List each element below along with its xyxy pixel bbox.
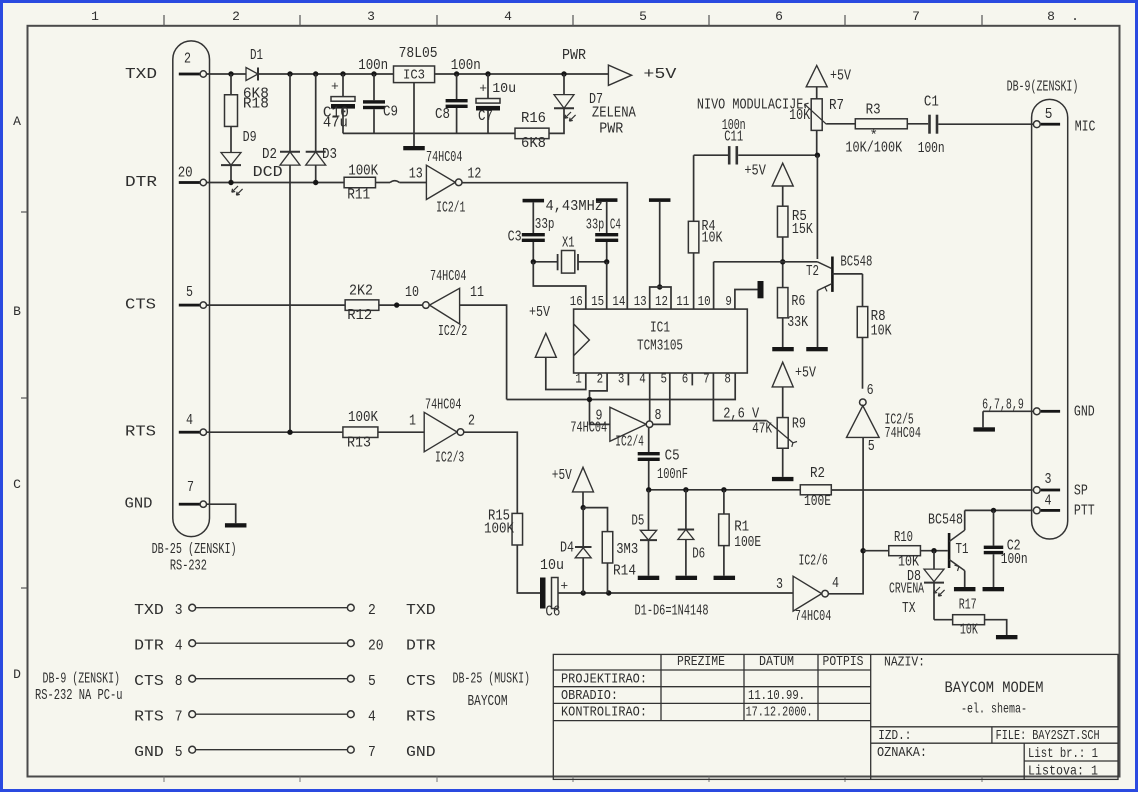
svg-text:20: 20 [178,165,193,182]
label DCD [253,164,283,181]
junction D2 RTS [287,430,292,435]
svg-text:ZELENA: ZELENA [592,105,636,122]
pin 6 stub [691,373,693,385]
label pin 3 IC2/6 [776,576,783,593]
resistor R5 [777,206,812,238]
wire R7 to junction [816,130,818,155]
svg-text:X1: X1 [562,235,575,252]
IC U1 TCM3105 body [574,309,748,373]
label RTS [125,424,156,441]
resistor R8 [857,274,891,389]
trimmer R9 wiper [767,421,797,447]
svg-text:10K: 10K [871,323,892,340]
diode D5 [631,490,657,576]
+5V arrow IC1 [529,304,586,390]
label GND [125,495,153,512]
svg-text:IC2/2: IC2/2 [438,323,467,340]
resistor R12 [345,282,379,324]
svg-text:R2: R2 [810,465,825,482]
junction R10 D8 [931,548,936,553]
label pin 2 IC2/3 [468,412,475,429]
connector J2 DB-9 (ZENSKI) body [1032,99,1068,539]
svg-text:5: 5 [868,438,875,455]
wire GND bus to ground [982,411,984,427]
crystal X1 [533,235,606,273]
svg-text:BAYCOM MODEM: BAYCOM MODEM [945,679,1044,697]
svg-text:+5V: +5V [795,364,816,381]
svg-text:8: 8 [724,372,731,388]
svg-text:C: C [13,477,21,492]
svg-text:DTR: DTR [406,638,436,655]
junction X1 left [531,259,536,264]
T2 emitter arrow [825,285,829,291]
svg-text:+5V: +5V [744,163,766,180]
label 4,43MHz [546,198,604,215]
svg-text:C5: C5 [665,448,680,465]
junction R18 [228,71,233,76]
svg-text:TXD: TXD [125,66,157,83]
svg-text:D: D [13,667,21,682]
junction C9 [371,71,376,76]
capacitor C1 [918,94,945,157]
svg-text:3M3: 3M3 [616,541,638,558]
label TX [902,600,916,617]
svg-text:8: 8 [1047,9,1055,24]
svg-text:+: + [331,79,339,94]
transistor T2 BC548 [806,253,872,347]
grid ticks top [164,15,982,26]
svg-text:4: 4 [639,372,646,388]
wire R5 to R6 [782,237,784,288]
LED D8 [907,551,944,620]
svg-text:A: A [13,114,21,129]
junction +5V D4 [581,505,586,510]
svg-text:4,43MHz: 4,43MHz [546,198,604,215]
svg-text:IC2/6: IC2/6 [799,553,828,570]
T1 emitter arrow [955,565,959,571]
svg-text:33p: 33p [535,216,555,233]
svg-text:R17: R17 [959,597,977,614]
svg-text:2: 2 [468,412,475,429]
resistor R13 [343,409,378,451]
junction D6 [683,487,688,492]
label DB-9 (ZENSKI) cable [43,671,121,688]
label pin 1 IC2/3 [409,412,416,429]
svg-text:6: 6 [682,372,689,388]
label DB-9(ZENSKI) [1007,79,1079,96]
junction long net IC2/4 [587,397,592,402]
svg-text:C4: C4 [610,217,621,234]
cable wire CTS [134,673,435,690]
label TXD [125,66,157,83]
svg-text:100n: 100n [1001,551,1028,568]
svg-text:10: 10 [405,284,419,301]
wire bar to pin12 [659,202,661,287]
svg-text:BC548: BC548 [928,512,963,529]
wire GND bus [983,410,1033,412]
+5V arrow R7 [806,66,851,99]
wire R9 down [782,448,784,477]
capacitor C7 [476,74,516,133]
svg-text:R9: R9 [792,416,806,433]
svg-text:33K: 33K [787,314,808,331]
wire SP line [831,489,1032,491]
svg-text:GND: GND [125,495,153,512]
svg-text:100n: 100n [358,57,388,74]
junction D2 top [287,71,292,76]
svg-text:8: 8 [655,407,662,424]
svg-text:IC3: IC3 [403,68,425,84]
svg-text:+5V: +5V [529,304,550,321]
svg-text:SP: SP [1074,482,1088,499]
svg-text:100n: 100n [451,57,481,74]
svg-text:DATUM: DATUM [759,654,794,670]
connector J1 DB-25 (ZENSKI) body [173,41,210,537]
label 100n C9 [358,57,388,74]
svg-text:12: 12 [467,165,481,182]
wire C4 to pin15 [606,262,608,309]
svg-text:74HC04: 74HC04 [885,425,921,442]
pin 5 MIC of J2 [1033,106,1060,128]
capacitor C9 [363,74,398,133]
svg-text:9: 9 [725,294,732,310]
svg-text:CTS: CTS [125,296,156,313]
LED D7 arrows [565,112,576,121]
pin 12-13 stub box [650,287,671,309]
cable wire RTS [134,709,435,726]
pin 7 GND of J1 [179,479,207,508]
wire R17 to ground [985,620,1007,635]
wire long net [507,373,736,400]
svg-text:GND: GND [406,744,436,761]
svg-text:DB-25 (MUSKI): DB-25 (MUSKI) [453,671,531,688]
label OZNAKA [877,745,927,761]
resistor R3 [845,102,907,157]
resistor R17 [934,597,985,639]
svg-text:12: 12 [655,294,668,310]
grid ticks bottom [164,777,982,783]
label 100n C8 [451,57,481,74]
svg-text:T1: T1 [956,541,969,558]
svg-text:47u: 47u [323,115,348,132]
IC1 bottom pin numbers [575,372,731,388]
wire TXD rail [207,73,609,75]
rail bar above C3 [523,199,545,203]
svg-text:D2: D2 [262,146,277,163]
label 2,6 V [723,406,759,423]
svg-text:D3: D3 [322,146,337,163]
junction C5 D5 [646,487,651,492]
wire R16 to D7 [549,108,564,133]
junction D4 col [581,590,586,595]
svg-text:FILE: BAY2SZT.SCH: FILE: BAY2SZT.SCH [996,728,1100,744]
diode D4 [560,508,592,593]
label pin 12 [467,165,481,182]
junction pin12 [657,284,662,289]
+5V arrow R9 [772,362,816,417]
svg-text:R11: R11 [347,187,370,204]
svg-text:CRVENA: CRVENA [889,581,924,598]
svg-text:RTS: RTS [125,424,156,441]
label 33p C4 [586,217,605,234]
svg-text:CTS: CTS [406,673,436,690]
svg-text:D6: D6 [692,546,705,563]
inverter IC2/3 [424,396,464,466]
label pin 6 IC2/5 [867,382,874,399]
trimmer R9 [752,416,806,449]
svg-text:DTR: DTR [134,638,164,655]
svg-text:5: 5 [639,9,647,24]
pin 2 TXD of J1 [179,50,207,77]
svg-text:IZD.:: IZD.: [878,728,911,744]
svg-text:+5V: +5V [643,66,676,83]
label pin 11 [470,284,484,301]
label POTPIS [823,654,864,670]
svg-text:RTS: RTS [134,709,164,726]
wire RX net [649,489,801,491]
resistor R10 [863,529,948,571]
svg-text:100n: 100n [918,140,945,157]
svg-text:R3: R3 [866,102,881,119]
svg-text:RTS: RTS [406,709,436,726]
junction C10 [340,71,345,76]
label pin 10 [405,284,419,301]
label KONTROLIRAO [561,705,647,721]
svg-text:100K: 100K [348,162,378,179]
label CRVENA [889,581,924,598]
svg-text:IC2/3: IC2/3 [435,450,464,467]
svg-text:2,6 V: 2,6 V [723,406,759,423]
rail bar above C4 [596,198,618,202]
wire GND pin to ground [207,504,236,523]
label MIC [1075,118,1096,135]
ground at J2 [973,427,995,431]
label date1 [748,688,805,704]
regulator IC3 78L05 [394,45,438,84]
svg-text:D1-D6=1N4148: D1-D6=1N4148 [635,602,709,619]
wire IC2/1 out to IC1 pin14 [462,183,627,309]
grid ticks left [21,212,28,588]
label NAZIV [884,655,925,671]
diode D6 [678,490,706,576]
svg-text:IC2/4: IC2/4 [615,433,644,450]
label RS-232 [170,558,207,575]
svg-text:3: 3 [776,576,783,593]
ground at T1 [954,587,976,591]
+5V arrow D4 [552,467,594,508]
pin 20 DTR of J1 [178,165,207,186]
svg-text:IC2/1: IC2/1 [436,200,465,217]
LED D9 [221,127,257,183]
wire IC2/2 out [460,305,507,399]
label DB-25 (ZENSKI) [152,541,237,558]
svg-text:+5V: +5V [552,467,572,484]
ground at R6 [772,347,794,351]
capacitor C11 [722,117,818,164]
wire pin2 to IC2/4 in [590,373,610,424]
svg-text:3: 3 [367,9,375,24]
svg-text:C11: C11 [724,129,743,146]
inverter IC2/2 [423,268,468,340]
svg-text:2: 2 [368,602,376,619]
junction PWR [561,71,566,76]
pin 3 SP of J2 [1033,471,1060,493]
svg-text:3: 3 [1045,471,1052,488]
svg-text:KONTROLIRAO:: KONTROLIRAO: [561,705,647,721]
junction X1 right [604,259,609,264]
grid row letters [13,114,21,682]
svg-text:2: 2 [184,50,191,67]
label el shema [961,702,1027,718]
svg-text:13: 13 [634,294,647,310]
inverter IC2/1 [426,149,465,217]
capacitor C3 [508,202,545,261]
svg-text:T2: T2 [806,263,819,280]
svg-text:BC548: BC548 [840,253,872,270]
svg-text:20: 20 [368,638,384,655]
label PWR LED [599,121,623,138]
ground at R9 [772,477,794,481]
svg-text:10u: 10u [540,557,564,574]
svg-text:10K: 10K [702,230,723,247]
svg-text:2K2: 2K2 [349,282,373,299]
resistor R2 [800,465,831,510]
svg-text:100nF: 100nF [657,466,688,483]
svg-text:2: 2 [597,372,604,388]
junction C11 R7 T2 [815,153,820,158]
capacitor C8 [435,74,468,133]
inverter IC2/5 [847,399,921,442]
junction D9 DTR [228,180,233,185]
trimmer R7 wiper [805,103,827,124]
resistor R14 [602,532,638,580]
pin 10 stub [713,262,715,309]
svg-text:PREZIME: PREZIME [677,654,725,670]
cable wire TXD [134,602,435,619]
svg-text:OBRADIO:: OBRADIO: [561,688,618,704]
svg-text:D5: D5 [631,512,644,529]
ground at C2 [983,587,1005,591]
label D1-D6=1N4148 [635,602,709,619]
IC1 top pin numbers [570,294,732,310]
label NIVO MODULACIJE [697,97,803,114]
junction C7 [485,71,490,76]
svg-text:+5V: +5V [830,68,851,85]
wire filter ground rail [343,132,515,134]
diode D2 [262,74,300,432]
svg-text:+: + [479,81,487,96]
wire IC2/6 out [828,437,863,593]
svg-text:100E: 100E [804,493,831,510]
svg-text:74HC04: 74HC04 [795,608,831,625]
label 33p C3 [535,216,555,233]
svg-text:10: 10 [698,294,711,310]
wire R15 to C6 [517,545,540,593]
rail bar above pin12 [649,198,671,202]
LED D7 [554,74,603,108]
resistor R16 [515,110,549,152]
label BAYCOM MODEM [945,679,1044,697]
svg-text:6,7,8,9: 6,7,8,9 [982,396,1024,413]
cable wire GND [134,744,435,761]
title block grid [553,654,1118,779]
svg-text:10K: 10K [789,107,810,124]
svg-text:R12: R12 [347,307,372,324]
svg-text:R14: R14 [613,563,636,580]
svg-text:4: 4 [1045,493,1052,510]
svg-text:Listova: 1: Listova: 1 [1028,764,1098,780]
svg-text:GND: GND [1074,403,1095,420]
ground at R17 [996,635,1018,639]
svg-text:PWR: PWR [562,47,586,64]
capacitor C5 [638,428,688,490]
svg-text:R6: R6 [791,293,805,310]
svg-text:List br.: 1: List br.: 1 [1028,746,1098,762]
cable wire DTR [134,638,435,655]
resistor R6 [777,288,808,347]
svg-text:15K: 15K [792,221,813,238]
resistor R15 [484,508,523,546]
transistor T1 BC548 [928,510,969,587]
label pin 5 IC2/5 [868,438,875,455]
wire RTS net [207,431,425,433]
pin 4 PTT of J2 [1033,493,1060,514]
svg-text:4: 4 [832,575,839,592]
wire pin4 to C5 [649,373,651,421]
LED D9 arrows [232,186,243,195]
svg-text:RS-232 NA PC-u: RS-232 NA PC-u [35,687,123,704]
svg-text:-el. shema-: -el. shema- [961,702,1027,718]
ground at J1 GND [225,523,247,527]
ground at D6 [676,576,698,580]
junction D3 DTR [313,180,318,185]
junction R5 R6 [780,259,785,264]
svg-text:2: 2 [232,9,240,24]
label Listova [1028,764,1098,780]
svg-text:74HC04: 74HC04 [430,268,466,285]
capacitor C6 [540,557,568,620]
pin 4 RTS of J1 [179,412,207,435]
trimmer R7 [789,97,844,131]
wire DTR net [207,181,427,183]
label OBRADIO [561,688,618,704]
resistor R4 [688,155,722,309]
diode D3 [306,74,337,183]
ground at R1 [714,576,736,580]
svg-text:R18: R18 [243,96,269,113]
pin 3 stub [627,373,629,385]
label pin 13 [409,165,423,182]
svg-text:PWR: PWR [599,121,623,138]
ground at T2 [806,347,828,351]
svg-text:D1: D1 [250,47,263,64]
inverter IC2/4 [570,407,652,450]
pin 5 CTS of J1 [179,284,207,308]
LED D8 arrows [934,587,945,596]
svg-text:DB-9 (ZENSKI): DB-9 (ZENSKI) [43,671,121,688]
svg-text:MIC: MIC [1075,118,1096,135]
svg-text:DB-9(ZENSKI): DB-9(ZENSKI) [1007,79,1079,96]
wire IC2/3 out to R15 [464,432,517,513]
svg-text:74HC04: 74HC04 [426,149,462,166]
svg-text:DTR: DTR [125,174,157,191]
svg-text:78L05: 78L05 [399,45,438,62]
svg-text:5: 5 [175,744,183,761]
svg-text:+: + [560,579,568,594]
svg-text:DCD: DCD [253,164,283,181]
svg-text:DB-25 (ZENSKI): DB-25 (ZENSKI) [152,541,237,558]
svg-text:R7: R7 [829,97,844,114]
